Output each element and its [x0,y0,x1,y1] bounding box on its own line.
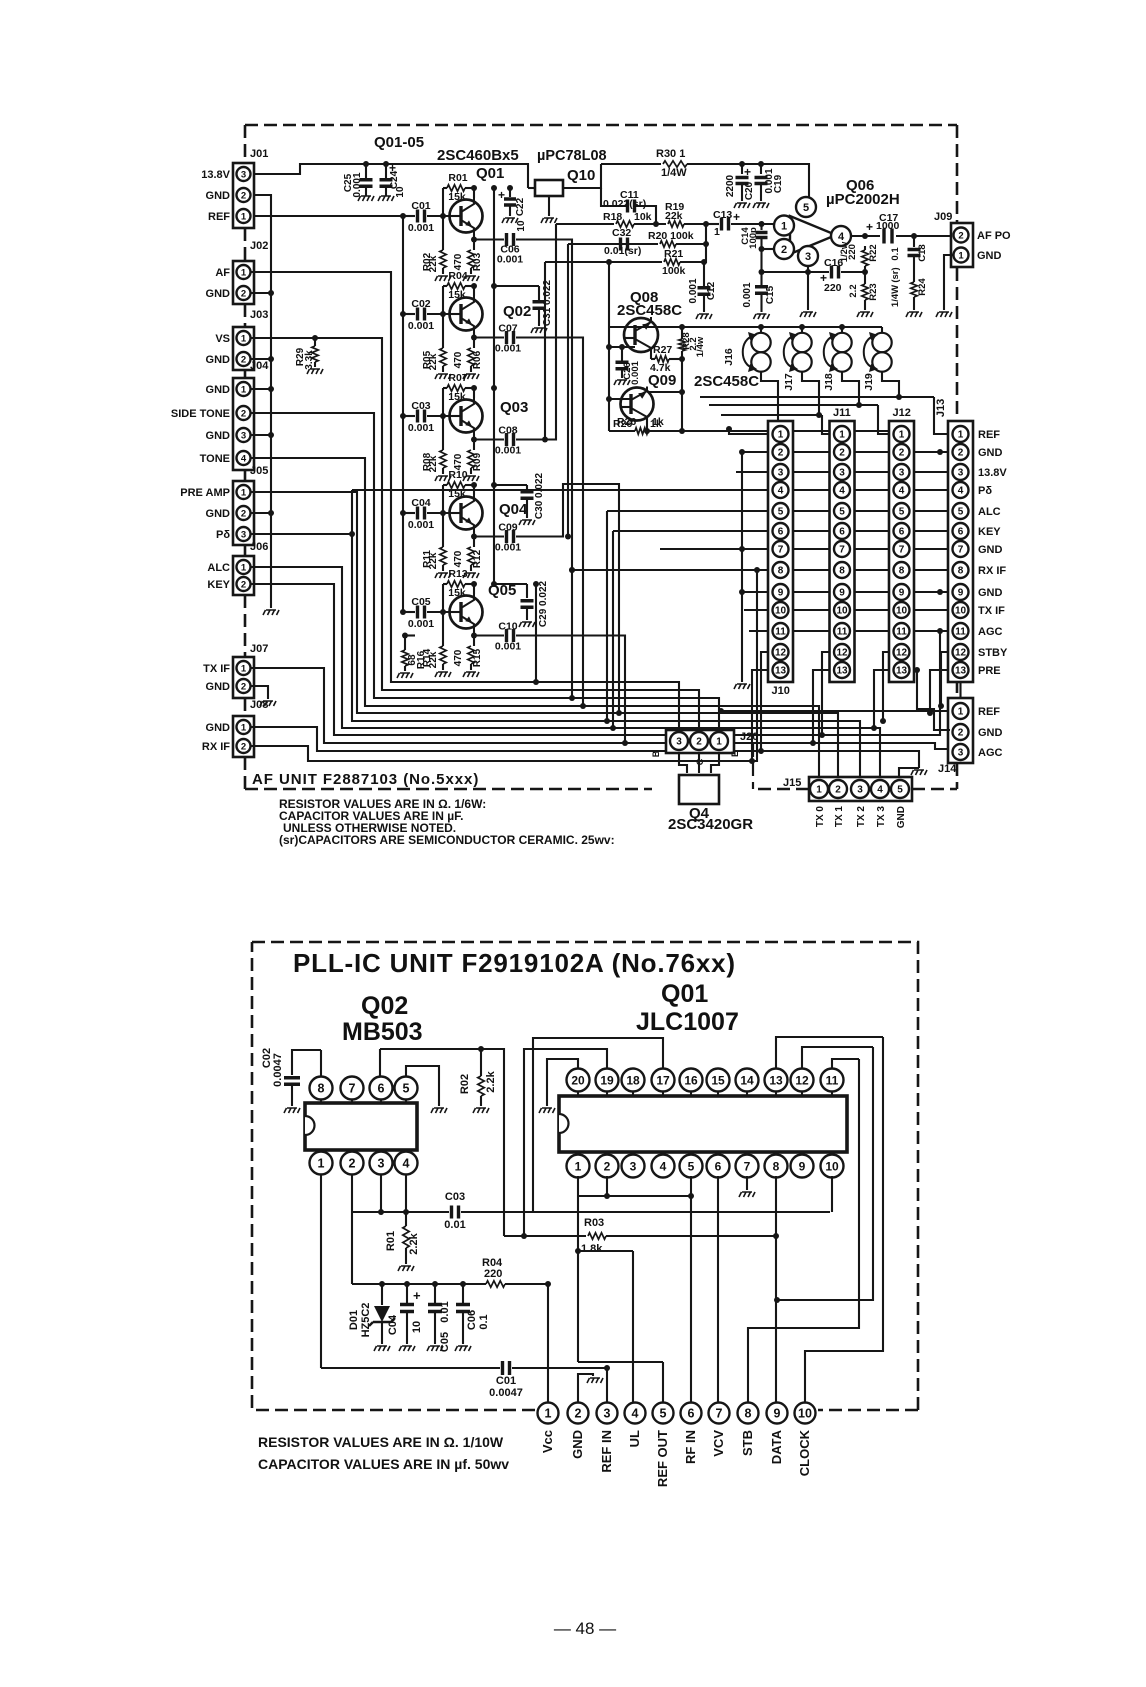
IC Q01 pin 15 [717,1090,719,1096]
svg-text:R13: R13 [448,568,467,580]
connector J20 [666,730,734,753]
svg-text:C29 0.022: C29 0.022 [538,580,549,627]
op-amp pin3 [798,246,818,266]
svg-text:J03: J03 [250,309,268,321]
svg-text:2: 2 [604,1159,611,1173]
wire Q02 pin5 route to ground [406,1066,439,1106]
svg-text:0.001: 0.001 [630,360,641,384]
svg-text:R07: R07 [448,372,467,384]
svg-text:7: 7 [744,1159,751,1173]
svg-text:J19: J19 [863,373,875,391]
svg-text:2: 2 [835,785,841,796]
svg-text:AF PO: AF PO [977,230,1011,242]
svg-text:TX IF: TX IF [203,663,230,675]
capacitor C01 input [403,215,415,217]
IC Q01 pin 11 [831,1090,833,1096]
wire bus PREAMP to J15 pin2 [250,492,838,777]
resistor R02 22k [442,216,444,250]
svg-text:C24: C24 [389,170,400,189]
capacitor C01 0.0047 [321,1367,500,1369]
svg-text:1: 1 [778,430,784,441]
svg-text:C01: C01 [496,1375,516,1387]
IC Q01 pin 4 [662,1152,664,1156]
svg-text:4: 4 [660,1159,667,1173]
capacitor C30 0.022 [494,485,527,490]
svg-text:Vcc: Vcc [540,1430,555,1453]
wire R26 1k line [609,430,635,432]
svg-text:10: 10 [825,1159,839,1173]
svg-text:3: 3 [805,251,811,263]
IC Q01 pin 6 [717,1152,719,1156]
resistor R22 220 1/2w [864,246,866,250]
svg-text:10: 10 [411,1321,423,1333]
svg-text:3: 3 [899,468,905,479]
resistor R09 470 [473,440,475,451]
svg-text:5: 5 [958,507,964,518]
svg-text:0.001: 0.001 [408,222,434,234]
resistor R20 100k [568,243,658,245]
svg-text:Q03: Q03 [500,399,528,416]
resistor R28 2.2 1/4w [681,327,683,339]
svg-text:+: + [866,220,873,234]
svg-text:8: 8 [318,1082,325,1096]
IC Q02 pin 6 [380,1100,382,1103]
svg-text:R15: R15 [472,648,483,667]
svg-text:5: 5 [897,785,903,796]
resistor R14 22k [442,612,444,646]
svg-text:3.3k: 3.3k [304,350,315,370]
svg-text:R20 100k: R20 100k [648,230,694,242]
svg-text:0.001: 0.001 [742,282,753,307]
resistor R13 15k [443,583,447,585]
wire Q01 pin8 to DATA [775,1176,777,1403]
svg-text:1: 1 [714,226,720,238]
wire Q01 pin17 loop H1 [533,1038,663,1212]
IC Q01 pin 17 [662,1090,664,1096]
svg-text:TX 2: TX 2 [856,806,867,828]
GND vertical J10 left + ground [741,452,743,682]
connector J08 [233,716,254,757]
svg-text:22k: 22k [428,552,439,569]
resistor R21 100k [545,261,662,263]
svg-text:C05: C05 [411,596,430,608]
svg-text:C08: C08 [498,425,517,437]
connector J14 [948,698,973,763]
resistor R16 68 [404,636,406,651]
svg-text:0.001: 0.001 [688,278,699,303]
svg-text:J18: J18 [823,373,835,391]
svg-text:3: 3 [241,529,246,540]
IC Q01 pin 12 [801,1090,803,1096]
svg-text:12: 12 [775,648,787,659]
wire J11 pin1 feed [822,415,829,434]
svg-text:GND: GND [978,587,1003,599]
IC Q01 pin 19 [606,1090,608,1096]
capacitor C31 0.022 [538,286,540,300]
PLL pin 3 REF IN [597,1403,618,1424]
svg-text:0.001: 0.001 [408,422,434,434]
svg-text:470: 470 [453,550,464,567]
svg-text:9: 9 [958,588,964,599]
wire J05 GND stub [250,512,271,514]
svg-text:470: 470 [453,253,464,270]
resistor R30 1 1/4W [601,163,661,165]
svg-text:3: 3 [958,468,964,479]
svg-text:C04: C04 [387,1314,399,1335]
svg-text:0.0047: 0.0047 [272,1053,284,1087]
wire J04 GND3 stub [250,434,271,436]
wire Q01 pin10 to C03 line [831,1176,833,1212]
wire Q08 collector drop [650,353,652,359]
svg-text:1: 1 [545,1407,552,1421]
wire REF IN riser [606,1368,608,1403]
svg-text:220: 220 [824,282,842,294]
svg-text:GND: GND [206,354,231,366]
capacitor C03 0.01 [379,1211,449,1213]
svg-text:11: 11 [826,1073,839,1087]
PLL pin 6 RF IN [681,1403,702,1424]
IC Q02 pin 1 [320,1150,322,1154]
svg-text:3: 3 [839,468,845,479]
wire J14 REF line [721,710,948,712]
IC Q01 pin 18 [632,1090,634,1096]
svg-text:13.8V: 13.8V [978,467,1007,479]
svg-text:R09: R09 [472,452,483,471]
svg-text:GND: GND [978,727,1003,739]
svg-text:HZ5C2: HZ5C2 [360,1303,372,1338]
AF unit dashed border left segments [244,125,247,789]
wire bus TONE to J15 pin1 [250,458,819,777]
svg-text:CLOCK: CLOCK [797,1429,812,1476]
svg-text:R22: R22 [868,244,879,261]
svg-text:REF OUT: REF OUT [655,1430,670,1487]
svg-text:Pδ: Pδ [978,485,992,497]
row12 row13 stepped feeds [752,670,770,761]
svg-text:8: 8 [958,566,964,577]
svg-text:4: 4 [839,486,845,497]
svg-text:C07: C07 [498,323,517,335]
PLL pin 8 STB [738,1403,759,1424]
svg-text:5: 5 [803,202,809,214]
wire right vertical to DATA [777,1047,873,1300]
svg-text:3: 3 [241,430,246,441]
svg-text:C01: C01 [411,200,430,212]
wire Vcc riser [547,1284,549,1403]
IC Q01 pin 7 [746,1152,748,1156]
wire bus AF to J20 pin3 [250,272,679,730]
svg-text:4: 4 [403,1157,410,1171]
svg-text:16: 16 [684,1073,698,1087]
svg-text:4: 4 [877,785,883,796]
svg-text:13.8V: 13.8V [201,169,230,181]
svg-text:12: 12 [836,648,848,659]
svg-text:220: 220 [484,1268,502,1280]
svg-text:RESISTOR VALUES ARE IN Ω. 1/10: RESISTOR VALUES ARE IN Ω. 1/10W [258,1434,504,1450]
wire step line B + J18 [709,371,878,405]
connector J12 [889,421,914,682]
svg-text:0.0047: 0.0047 [489,1387,523,1399]
svg-text:12: 12 [795,1073,809,1087]
svg-text:R26: R26 [617,416,636,428]
svg-text:R12: R12 [472,549,483,568]
svg-text:JLC1007: JLC1007 [636,1008,739,1036]
resistor R08 22k [442,416,444,450]
capacitor C04 input [403,512,415,514]
resistor R03 470 [473,240,475,251]
capacitor C24 [385,164,387,178]
svg-text:C09: C09 [498,522,517,534]
svg-text:0.1: 0.1 [478,1314,490,1329]
IC Q02 pin 3 [380,1150,382,1154]
svg-text:ALC: ALC [978,506,1001,518]
svg-text:5: 5 [403,1082,410,1096]
wire stage3 out to R18 [516,224,556,440]
svg-text:3: 3 [857,785,863,796]
svg-text:2: 2 [958,448,964,459]
svg-text:+: + [733,210,740,224]
svg-text:10: 10 [775,606,787,617]
AF unit dashed border top [245,124,957,127]
wire Q02 pin1 riser to C01 line [320,1174,322,1368]
svg-text:3: 3 [604,1407,611,1421]
resistor R04 220 [486,1281,505,1287]
svg-text:1: 1 [958,430,964,441]
svg-text:2: 2 [241,741,246,752]
svg-text:0.001: 0.001 [495,542,521,554]
wire bus TXIF to J14 [250,668,948,749]
svg-text:+: + [413,1288,421,1303]
capacitor C02 0.0047 [292,1050,321,1075]
svg-text:0.001: 0.001 [408,618,434,630]
svg-text:µPC2002H: µPC2002H [826,191,900,208]
svg-text:REF: REF [978,706,1000,718]
svg-text:C10: C10 [498,621,517,633]
svg-text:GND: GND [206,288,231,300]
svg-text:AF UNIT F2887103 (No.5xxx): AF UNIT F2887103 (No.5xxx) [252,771,479,788]
wire R28 node descend [681,359,683,431]
svg-text:J11: J11 [833,407,851,419]
svg-text:C31 0.022: C31 0.022 [542,279,553,326]
wire J20 to Q4 leads [679,753,719,773]
svg-text:6: 6 [839,527,845,538]
svg-text:4: 4 [958,486,964,497]
transistor Q03 [450,400,483,433]
svg-text:R04: R04 [448,270,467,282]
wire Q01 pin13 loop right [776,1037,883,1068]
capacitor C29 0.022 [494,584,527,598]
svg-text:AF: AF [215,267,230,279]
svg-text:20: 20 [571,1073,585,1087]
wire GND pin riser + ground [578,1374,593,1403]
svg-text:0.01(sr): 0.01(sr) [604,245,641,257]
IC Q02 pin 7 [351,1100,353,1103]
resistor R23 2.2 [864,272,866,284]
svg-text:J20: J20 [740,731,758,743]
svg-text:R27: R27 [653,344,672,356]
svg-text:0.001: 0.001 [495,445,521,457]
IC Q01 JLC1007 body [559,1096,847,1152]
svg-text:0.001: 0.001 [352,172,363,197]
wire Q06 output [851,235,951,237]
wire Q05 collector line [442,584,444,612]
svg-text:15: 15 [711,1073,725,1087]
svg-text:2: 2 [349,1157,356,1171]
wire Q02 pin2 riser to R04 rail [351,1174,353,1284]
wire J09 GND [944,255,953,310]
PLL pin 2 GND [568,1403,589,1424]
wire Q02 emitter to output line [473,332,475,338]
capacitor C05 0.01 [434,1284,436,1303]
svg-text:1: 1 [241,384,247,395]
svg-text:11: 11 [896,627,907,638]
svg-text:2: 2 [696,737,702,748]
svg-text:2: 2 [899,448,905,459]
svg-text:10: 10 [798,1407,812,1421]
wire Q09 base [609,399,631,407]
wire Q02 pin3 riser [380,1174,382,1212]
regulator Q10 box [535,180,563,196]
svg-text:14: 14 [740,1073,754,1087]
resistor R07 15k [443,387,447,389]
IC Q02 pin 2 [351,1150,353,1154]
svg-text:0.022(sr): 0.022(sr) [603,198,646,210]
svg-text:0.01: 0.01 [439,1301,451,1322]
svg-text:GND: GND [206,681,231,693]
transistor Q04 [450,497,483,530]
connector J17 pair [801,327,803,333]
svg-text:R21: R21 [664,248,683,260]
capacitor C15 0.001 [760,272,762,285]
wire Q02 pin4 riser [405,1174,407,1212]
svg-text:RX IF: RX IF [978,565,1006,577]
svg-text:9: 9 [778,588,784,599]
wire Q09 emitter right [648,391,682,393]
svg-text:6: 6 [958,527,964,538]
svg-text:0.001: 0.001 [408,519,434,531]
wire bus RXIF to row8 [250,570,757,761]
svg-text:3: 3 [958,748,964,759]
PLL pin 1 Vcc [538,1403,559,1424]
svg-text:13: 13 [955,666,967,677]
svg-text:3: 3 [241,169,246,180]
capacitor C04 10 electrolytic [406,1284,408,1303]
svg-text:10: 10 [836,606,848,617]
svg-text:2: 2 [241,408,246,419]
wire REF OUT link [578,1362,663,1403]
svg-text:1: 1 [241,663,247,674]
svg-text:C15: C15 [765,285,776,304]
svg-text:5: 5 [778,507,784,518]
svg-text:8: 8 [839,566,845,577]
wire Q10 output [563,164,601,188]
svg-text:1000: 1000 [876,220,900,232]
op-amp pin5 [796,197,816,217]
row junction dots [569,567,575,573]
svg-text:4: 4 [778,486,784,497]
wire Q01 pin19 loop H2 [524,1049,607,1236]
svg-text:C20: C20 [744,181,755,200]
svg-text:TONE: TONE [200,453,230,465]
wire bus VS to J20 pin2 [250,338,699,730]
IC Q02 pin 5 [405,1100,407,1103]
wire Q01 emitter to output line [473,234,475,240]
capacitor C06 0.1 [462,1284,464,1303]
connector J05 [233,481,254,545]
svg-text:8: 8 [745,1407,752,1421]
resistor R02 2.2k [480,1049,482,1076]
svg-text:R24: R24 [917,278,928,296]
svg-text:C05: C05 [439,1332,451,1352]
svg-text:J06: J06 [250,541,268,553]
svg-text:MB503: MB503 [342,1018,423,1046]
connector J01 [233,163,254,228]
ground GND bus [263,610,279,615]
svg-text:TX 1: TX 1 [834,806,845,828]
AF unit dashed border right segments [956,125,959,789]
capacitor C11 0.022(sr) [601,188,627,206]
capacitor C26 0.001 [621,347,623,361]
svg-text:1: 1 [816,785,822,796]
connector J16 pair [760,327,762,333]
connector J13 [948,421,973,682]
svg-text:7: 7 [899,545,905,556]
capacitor C06 output [474,238,504,240]
IC Q01 pin 20 [577,1090,579,1096]
svg-text:J05: J05 [250,465,268,477]
svg-text:J16: J16 [723,348,735,366]
wire Q10 input left [528,187,535,189]
svg-text:22k: 22k [665,210,683,222]
capacitor C13 1 [714,223,719,225]
svg-text:1: 1 [575,1159,582,1173]
wire Q01 pin20 route to ground [547,1059,578,1106]
svg-text:1: 1 [241,211,247,222]
wire J04 GND1 stub [250,388,271,390]
svg-text:9: 9 [899,588,905,599]
svg-text:1: 1 [241,333,247,344]
connector J02 [233,261,254,304]
svg-text:22k: 22k [428,255,439,272]
svg-text:5: 5 [688,1159,695,1173]
capacitor C25 [365,164,367,178]
IC Q01 pin 8 [775,1152,777,1156]
svg-text:RX IF: RX IF [202,741,230,753]
svg-text:18: 18 [626,1073,640,1087]
svg-text:STBY: STBY [978,647,1008,659]
wire Q08 base [609,346,635,348]
capacitor C08 output [474,438,504,440]
svg-text:GND: GND [206,508,231,520]
svg-text:22k: 22k [428,651,439,668]
svg-text:3: 3 [676,737,682,748]
wire J13 pin1 feed [934,397,948,434]
svg-text:2: 2 [839,448,845,459]
svg-text:(sr)CAPACITORS ARE SEMICONDUCT: (sr)CAPACITORS ARE SEMICONDUCTOR CERAMIC… [279,833,615,847]
svg-text:C32: C32 [612,227,631,239]
wire CLOCK route [805,1037,883,1403]
svg-text:Q10: Q10 [567,167,595,184]
resistor R15 470 [473,636,475,647]
svg-text:1/4W: 1/4W [661,167,687,179]
svg-text:SIDE TONE: SIDE TONE [171,408,230,420]
svg-text:J13: J13 [935,399,947,417]
svg-text:11: 11 [837,627,848,638]
PLL pin 10 CLOCK [795,1403,816,1424]
connector J19 pair [881,327,883,333]
connector J06 [233,556,254,595]
op-amp Q06 triangle [790,216,836,254]
svg-text:17: 17 [656,1073,670,1087]
